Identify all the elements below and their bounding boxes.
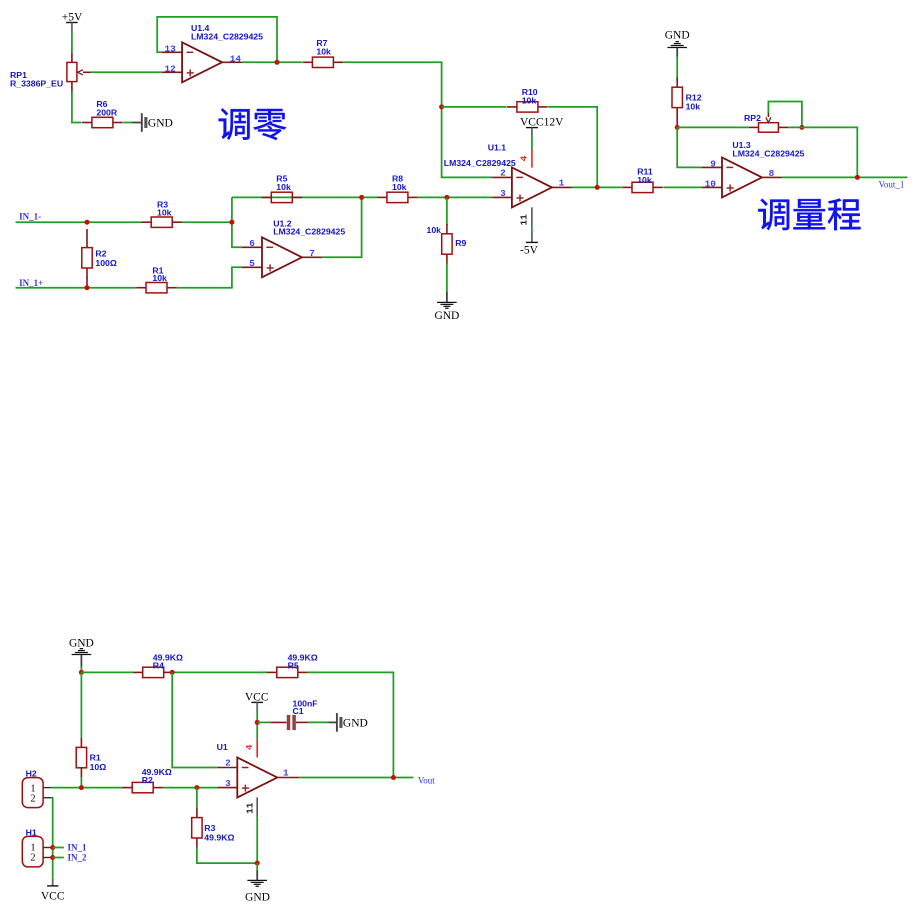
junction RP2 loop node [799, 125, 804, 130]
wire U1.1 output to R11 [572, 186, 622, 188]
text tiaoling (zero adjust) [219, 108, 286, 140]
text tiaoliangcheng (span adjust) [758, 198, 860, 230]
svg-text:100Ω: 100Ω [95, 258, 116, 268]
svg-text:LM324_C2829425: LM324_C2829425 [444, 158, 516, 168]
svg-text:14: 14 [230, 53, 242, 64]
svg-text:VCC: VCC [41, 890, 65, 902]
resistor R6 [82, 117, 123, 127]
junction R12 bottom node [675, 125, 680, 130]
resistor R3 (lower) [192, 788, 202, 848]
wire GND node to GND symbol [256, 863, 258, 871]
svg-text:49.9KΩ: 49.9KΩ [204, 832, 234, 842]
ground flag GND right of R6 [132, 113, 173, 132]
connector H1 [22, 836, 51, 867]
svg-text:200R: 200R [96, 108, 117, 118]
resistor R2 [82, 229, 92, 288]
capacitor C1 [270, 715, 308, 730]
power flag -5V [520, 232, 539, 257]
svg-text:U1.1: U1.1 [488, 143, 507, 153]
wire H2 pin1 to R2 [52, 787, 124, 789]
resistor R5 [262, 192, 303, 202]
svg-text:2: 2 [31, 794, 36, 805]
junction H1 pin2 [50, 855, 55, 860]
svg-text:GND: GND [148, 118, 173, 130]
svg-text:10k: 10k [152, 273, 167, 283]
svg-text:H1: H1 [26, 827, 37, 837]
svg-text:10k: 10k [157, 207, 172, 217]
wire U1.3 output to Vout_1 [782, 176, 908, 178]
wire RP2 wiper loop [768, 102, 802, 128]
svg-text:13: 13 [165, 43, 177, 54]
svg-text:R5: R5 [288, 660, 299, 670]
svg-text:3: 3 [225, 778, 231, 789]
svg-text:R9: R9 [455, 238, 466, 248]
ground GND below R9 [434, 292, 459, 322]
svg-text:GND: GND [69, 638, 94, 650]
svg-text:R3: R3 [204, 823, 215, 833]
resistor R5 (lower) [267, 667, 308, 677]
wire RP1 bottom to R6 [72, 92, 82, 123]
resistor R10 [507, 102, 548, 112]
svg-text:1: 1 [283, 767, 289, 778]
wire U1.4 feedback loop [157, 17, 277, 62]
svg-text:GND: GND [665, 30, 690, 42]
wire R2 to U1 pin 3 [163, 787, 217, 789]
svg-text:6: 6 [249, 238, 255, 249]
svg-text:7: 7 [309, 248, 315, 259]
svg-text:VCC12V: VCC12V [520, 116, 564, 128]
wire U1.4 output to R7 [242, 61, 302, 63]
wire VCC to U1 pin 4 [256, 711, 258, 738]
junction R3 branch (lower) [194, 785, 199, 790]
svg-text:3: 3 [500, 188, 506, 199]
wire R7 to U1.1 pin 2 [343, 62, 492, 177]
svg-text:H2: H2 [26, 769, 37, 779]
svg-text:10k: 10k [276, 182, 291, 192]
op-amp U1 (lower) [217, 738, 299, 817]
svg-text:R2: R2 [142, 775, 153, 785]
svg-text:10k: 10k [427, 225, 442, 235]
svg-text:8: 8 [769, 168, 775, 179]
svg-text:12: 12 [165, 63, 177, 74]
junction H1 pin1 [50, 845, 55, 850]
resistor R9 [442, 197, 452, 264]
connector H2 [22, 778, 51, 808]
wire RP2 node to output [788, 127, 857, 177]
power flag VCC12V [520, 116, 564, 136]
svg-text:10k: 10k [316, 46, 331, 56]
svg-text:2: 2 [225, 758, 231, 769]
wire H2 pin2 down to VCC [52, 798, 53, 878]
junction R4 R5 pin2 node [170, 670, 175, 675]
svg-text:10k: 10k [637, 175, 652, 185]
svg-text:R_3386P_EU: R_3386P_EU [10, 79, 63, 89]
svg-text:10: 10 [705, 179, 717, 190]
svg-text:4: 4 [244, 744, 255, 750]
junction GND node (lower) [255, 861, 260, 866]
svg-text:4: 4 [519, 155, 530, 161]
svg-text:1: 1 [559, 177, 565, 188]
svg-text:IN_2: IN_2 [68, 853, 88, 863]
potentiometer RP1 [67, 53, 91, 92]
svg-text:LM324_C2829425: LM324_C2829425 [273, 226, 345, 236]
wire R11 to U1.3 pin 10 [663, 186, 702, 188]
svg-text:IN_1-: IN_1- [19, 212, 41, 222]
junction R3 node [229, 220, 234, 225]
svg-text:C1: C1 [293, 706, 304, 716]
junction U1.2 output node [359, 195, 364, 200]
wire bus GND to R4 [81, 671, 132, 673]
resistor R11 [622, 182, 663, 192]
svg-text:10k: 10k [392, 182, 407, 192]
svg-text:10k: 10k [686, 102, 701, 112]
power flag VCC (below H1) [41, 878, 65, 902]
junction U1.4 output feedback node [275, 60, 280, 65]
svg-text:GND: GND [343, 718, 368, 730]
wire R4 node to U1 pin 2 [172, 672, 217, 767]
junction R1 bottom node [79, 785, 84, 790]
power flag VCC (above U1) [245, 692, 269, 712]
wire R5 to output node [308, 672, 394, 777]
wire node down to U1.3 pin 9 [677, 127, 702, 167]
wire U1.2 output up to R5-R8 node [322, 197, 362, 257]
svg-text:11: 11 [519, 214, 530, 226]
wire R4 to R5 [174, 671, 268, 673]
resistor R1 [136, 283, 177, 293]
junction R10 branch node [439, 104, 444, 109]
svg-text:5: 5 [249, 258, 255, 269]
svg-text:LM324_C2829425: LM324_C2829425 [191, 31, 263, 41]
ground GND below U1 [245, 870, 270, 903]
ground GND top left lower circuit [69, 638, 94, 667]
wire R6 to GND flag [123, 122, 133, 124]
svg-text:U1: U1 [217, 742, 228, 752]
junction GND bus R1 top [79, 670, 84, 675]
junction R9 branch [444, 195, 449, 200]
wire VCC node to C1 [257, 721, 270, 723]
junction U1.3 output feedback [855, 175, 860, 180]
resistor R4 (lower) [133, 667, 174, 677]
wire stub IN_1 [53, 847, 64, 849]
wire R10 to U1.1 output node [548, 107, 597, 187]
wire node to R10 [442, 106, 507, 108]
svg-text:LM324_C2829425: LM324_C2829425 [732, 149, 804, 159]
wire IN_1+ to R1 [16, 287, 137, 289]
resistor R1 (lower) [76, 672, 86, 787]
junction IN_1+ R2 bottom [85, 285, 90, 290]
svg-text:11: 11 [244, 802, 255, 814]
wire +5V down to RP1 [71, 31, 73, 52]
wire U1 pin 11 to GND node [256, 817, 258, 863]
op-amp U1.3 [702, 157, 782, 197]
ground GND top right [665, 30, 690, 57]
wire stub IN_2 [53, 857, 64, 859]
junction IN_1- R2 top [85, 220, 90, 225]
svg-text:IN_1: IN_1 [68, 843, 88, 853]
wire U1 output to Vout [299, 777, 413, 779]
wire R3 to GND node [197, 848, 257, 864]
op-amp U1.2 [242, 237, 322, 277]
wire RP1 wiper to U1.4 pin 12 [91, 71, 163, 73]
svg-text:10k: 10k [522, 95, 537, 105]
junction output feedback node [391, 775, 396, 780]
svg-text:GND: GND [245, 891, 270, 903]
resistor R12 [672, 77, 682, 127]
svg-text:R4: R4 [153, 660, 164, 670]
svg-text:2: 2 [500, 168, 506, 179]
wire VCC12V to U1.1 pin 4 [531, 136, 533, 149]
resistor R8 [377, 192, 418, 202]
svg-text:R1: R1 [90, 753, 101, 763]
resistor R3 [141, 217, 182, 227]
wire IN_1- to R3 [16, 221, 142, 223]
svg-text:RP2: RP2 [744, 113, 761, 123]
op-amp U1.1 [492, 149, 572, 228]
svg-text:-5V: -5V [520, 245, 539, 257]
junction VCC C1 node [255, 720, 260, 725]
svg-text:R2: R2 [95, 249, 106, 259]
svg-text:10Ω: 10Ω [90, 762, 107, 772]
svg-text:Vout_1: Vout_1 [879, 180, 905, 190]
ground flag GND right of C1 [329, 713, 368, 732]
svg-text:2: 2 [31, 853, 36, 864]
wire R9 to GND [446, 263, 448, 292]
svg-text:GND: GND [434, 310, 459, 322]
wire GND to R12 [676, 56, 678, 80]
resistor R2 (lower) [122, 782, 163, 792]
wire GND to bus [80, 667, 82, 673]
wire R8 to U1.1 pin 3 [418, 196, 493, 198]
wire R5 line [232, 196, 377, 198]
svg-text:IN_1+: IN_1+ [19, 278, 43, 288]
op-amp U1.4 [162, 42, 242, 82]
svg-text:Vout: Vout [418, 775, 435, 785]
junction U1.1 output node [595, 185, 600, 190]
svg-text:9: 9 [710, 158, 716, 169]
wire R1 to U1.2 pin 5 [177, 267, 242, 287]
wire C1 to GND flag [308, 721, 328, 723]
wire R12 node to RP2 [677, 126, 749, 128]
resistor R7 [303, 57, 344, 67]
wire U1.1 pin 11 to -5V [531, 227, 533, 232]
power flag +5V [62, 12, 83, 32]
wire node to U1.2 pin 6 [232, 197, 242, 247]
potentiometer RP2 [749, 113, 788, 133]
wire R3 to U1.2 input node [182, 221, 232, 223]
